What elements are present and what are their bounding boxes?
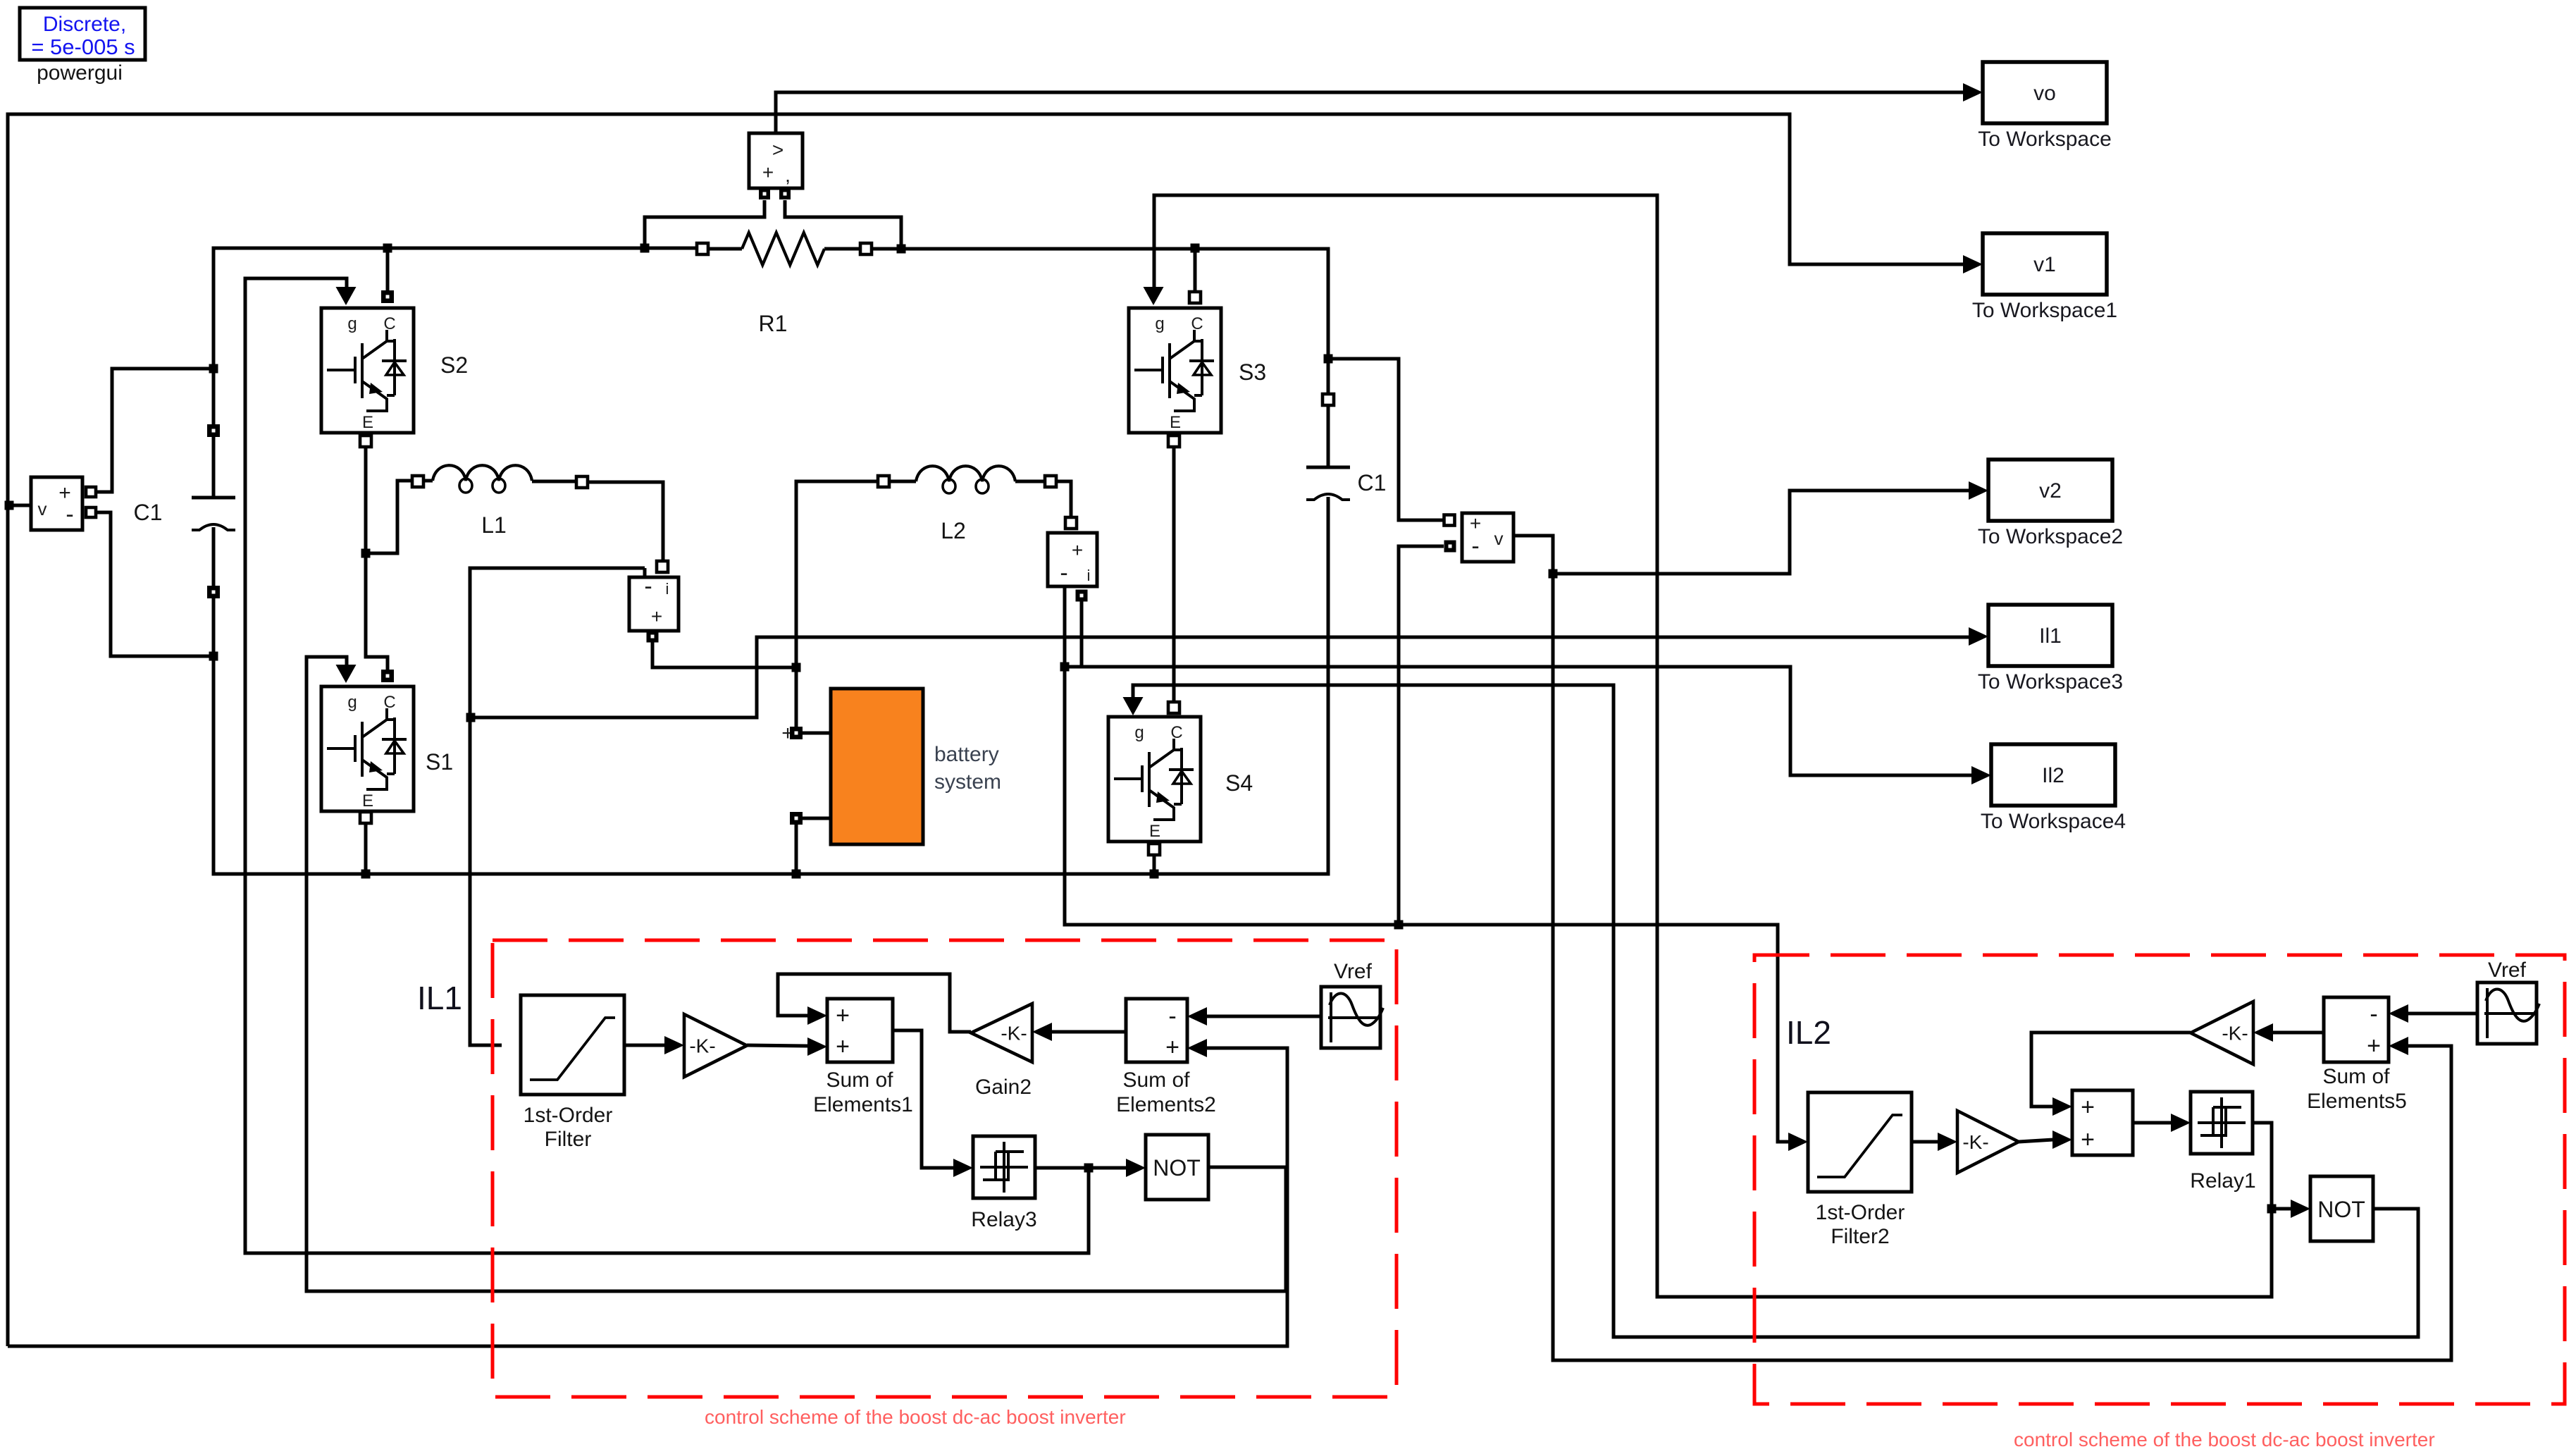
- port meas1 top port: [657, 561, 668, 572]
- svg-text:To Workspace3: To Workspace3: [1978, 670, 2123, 694]
- wire Gain3 out loop to sum IL2 top: [2031, 1033, 2191, 1107]
- logic block NOT (IL1): [1146, 1135, 1208, 1200]
- arrow into Relay3: [953, 1159, 973, 1177]
- gain block Gain2: [971, 1004, 1032, 1062]
- arrow into Sum5 minus: [2389, 1004, 2408, 1023]
- relay block Relay3: [973, 1136, 1035, 1198]
- port L1 right port: [576, 476, 588, 488]
- wire S2 emitter to S1 collector: [366, 447, 388, 670]
- wire > block right port to R1 right: [785, 200, 901, 249]
- wire meas1 left top stub: [643, 568, 647, 577]
- svg-text:+: +: [2081, 1094, 2095, 1121]
- To Workspace block To Workspace1: [1983, 233, 2107, 295]
- wire v-meas plus tap: [96, 369, 213, 492]
- arrow into v2: [1969, 481, 1988, 500]
- wire Gain2 out loop to Sum1 top: [778, 974, 971, 1032]
- wire Sum1 out to Relay3: [893, 1030, 954, 1168]
- junction L1 tap: [361, 549, 371, 558]
- wire R1 right lead: [824, 247, 860, 251]
- svg-text:control scheme of the boost dc: control scheme of the boost dc-ac boost …: [2014, 1429, 2435, 1450]
- svg-text:IL2: IL2: [1786, 1014, 1831, 1051]
- source block Vref2 (Vref sine): [2477, 982, 2537, 1044]
- svg-text:To Workspace1: To Workspace1: [1972, 299, 2117, 322]
- arrow into sum IL2 top: [2052, 1097, 2072, 1116]
- svg-text:Vref: Vref: [1334, 960, 1373, 983]
- svg-text:v: v: [38, 498, 47, 519]
- svg-text:Elements5: Elements5: [2307, 1090, 2407, 1113]
- wire L2 right to current meas2: [1056, 481, 1071, 517]
- wire meas2 minus / signal to Filter2: [1065, 586, 1789, 1142]
- arrow into Sum2 plus: [1187, 1039, 1207, 1057]
- svg-text:+: +: [762, 161, 774, 183]
- svg-text:+: +: [836, 1002, 850, 1029]
- svg-text:+: +: [1072, 539, 1083, 561]
- junction S4E on bus: [1150, 870, 1159, 879]
- svg-text:-: -: [1060, 560, 1067, 586]
- svg-text:To Workspace2: To Workspace2: [1978, 525, 2123, 548]
- inductor L1 coil: [433, 465, 532, 481]
- junction v minus tee: [209, 652, 218, 661]
- To Workspace block To Workspace: [1983, 62, 2107, 123]
- port S4 E port: [1148, 844, 1160, 855]
- svg-text:L1: L1: [481, 512, 507, 538]
- port S4 C port: [1168, 702, 1179, 713]
- junction S2C on rail: [383, 244, 392, 253]
- transistor S2 (IGBT/Diode block): [321, 308, 414, 433]
- wire > block left port to rail: [645, 200, 764, 248]
- svg-text:system: system: [934, 770, 1001, 794]
- svg-text:powergui: powergui: [37, 61, 123, 85]
- control scheme box IL2 (red dashed): [1754, 955, 2565, 1404]
- arrow into Il1: [1969, 627, 1988, 646]
- svg-text:g: g: [347, 693, 357, 712]
- svg-text:S4: S4: [1225, 770, 1253, 796]
- svg-text:Elements1: Elements1: [813, 1093, 913, 1116]
- svg-text:+: +: [2367, 1033, 2381, 1059]
- wire L2 right lead: [1015, 480, 1045, 483]
- wire NOT1(IL2) output to S4 gate: [1133, 685, 2418, 1337]
- svg-text:R1: R1: [759, 311, 788, 336]
- To Workspace block To Workspace4: [1991, 744, 2115, 806]
- port meas2 top port: [1065, 517, 1077, 529]
- transistor S4 (IGBT/Diode block): [1108, 717, 1201, 842]
- svg-text:Il2: Il2: [2042, 764, 2064, 787]
- wire L1 left lead: [423, 479, 433, 483]
- port S1 C port: [381, 670, 394, 682]
- svg-text:g: g: [347, 314, 357, 333]
- svg-text:-: -: [1168, 1003, 1176, 1030]
- wire L2 left lead: [889, 480, 916, 483]
- gain block Gain IL2: [1957, 1111, 2019, 1173]
- junction S3C on rail: [1191, 244, 1200, 253]
- junction v2 minus tee: [1394, 920, 1404, 930]
- svg-text:vo: vo: [2033, 82, 2056, 105]
- source block Vref1 (Vref sine): [1321, 987, 1380, 1048]
- port meas2 i port: [1076, 590, 1088, 602]
- wire v2 plus tap: [1328, 359, 1444, 520]
- wire S3 collector drop: [1194, 252, 1197, 292]
- port v-meas plus port: [86, 487, 96, 497]
- svg-text:-: -: [66, 501, 73, 528]
- wire L2 left down to battery plus node: [796, 481, 878, 667]
- port v-meas minus port: [86, 507, 96, 517]
- svg-text:Filter2: Filter2: [1831, 1225, 1889, 1248]
- svg-text:C1: C1: [134, 500, 163, 525]
- svg-text:+: +: [2081, 1126, 2095, 1153]
- wire bottom bus: C1 left bottom to C1 right bottom: [213, 497, 1328, 874]
- wire sum IL2 out to Relay1: [2133, 1121, 2172, 1125]
- wire v-meas output stub: [13, 504, 31, 507]
- wire Relay1 output to S3 gate: [1154, 195, 2272, 1297]
- junction battery plus node: [792, 663, 801, 672]
- svg-text:C: C: [1170, 723, 1182, 742]
- port battery minus port: [790, 812, 803, 825]
- junction Relay1 out tee: [2267, 1205, 2277, 1214]
- svg-text:g: g: [1155, 314, 1164, 333]
- port meas1 bottom port: [647, 631, 659, 643]
- svg-text:Relay3: Relay3: [971, 1208, 1036, 1231]
- svg-text:Vref: Vref: [2488, 959, 2527, 982]
- wire L1 right lead: [532, 480, 576, 483]
- port R1 right port: [860, 243, 872, 254]
- svg-text:Sum of: Sum of: [826, 1068, 893, 1092]
- svg-text:control scheme of the boost dc: control scheme of the boost dc-ac boost …: [705, 1406, 1126, 1428]
- svg-text:-K-: -K-: [1962, 1131, 1988, 1153]
- gain block Gain3: [2191, 1002, 2253, 1064]
- wire L1 right to current meas1: [588, 482, 663, 561]
- sum block sum IL2: [2072, 1090, 2133, 1155]
- svg-text:E: E: [362, 791, 373, 811]
- current measurement block 2 (IL2): [1048, 533, 1097, 586]
- wire battery minus to bus: [795, 825, 798, 874]
- arrow into Gain2: [1032, 1023, 1052, 1041]
- arrow into Gain IL1: [664, 1036, 684, 1054]
- wire Il2 signal to To Workspace4: [1065, 667, 1972, 775]
- port S3 C port: [1189, 292, 1201, 303]
- arrow into Sum5 plus: [2389, 1037, 2408, 1055]
- svg-text:-: -: [644, 573, 652, 600]
- svg-text:E: E: [1149, 822, 1160, 841]
- wire branch to NOT (IL2): [2272, 1207, 2291, 1211]
- svg-text:Gain2: Gain2: [975, 1076, 1032, 1099]
- svg-text:L2: L2: [941, 518, 966, 543]
- sum block Sum of Elements5: [2324, 997, 2389, 1062]
- battery system block: [831, 689, 923, 844]
- wire battery plus stub: [803, 732, 831, 735]
- wire vo net: load voltage to To Workspace: [776, 92, 1964, 133]
- port R1 left port: [697, 243, 708, 254]
- svg-text:-K-: -K-: [689, 1035, 715, 1057]
- wire NOT1 output to S1 gate: [306, 657, 1286, 1291]
- port meas-top left port: [759, 188, 770, 199]
- wire v2 minus tap: [1399, 546, 1444, 925]
- port C1 left bottom port: [207, 586, 220, 598]
- svg-text:E: E: [1170, 413, 1181, 432]
- arrow into vo: [1963, 83, 1983, 101]
- port v2 plus port: [1444, 515, 1455, 526]
- svg-text:v2: v2: [2039, 479, 2062, 503]
- wire Vref1 to Sum of Elements2 minus: [1206, 1015, 1321, 1018]
- arrow into Il2: [1971, 766, 1991, 784]
- svg-text:+: +: [836, 1033, 850, 1060]
- inductor L2 coil: [916, 466, 1015, 481]
- junction battery minus on bus: [792, 870, 801, 879]
- svg-text:i: i: [666, 580, 669, 598]
- wire rail right: R1 to C1(right) top: [872, 249, 1328, 467]
- port C1 right top port: [1323, 394, 1334, 405]
- svg-text:1st-Order: 1st-Order: [524, 1104, 613, 1127]
- measurement block over R1: [749, 133, 803, 188]
- port v2 minus port: [1444, 541, 1456, 553]
- port C1 left top port: [207, 424, 220, 437]
- svg-text:C: C: [1191, 314, 1203, 333]
- transistor S1 (IGBT/Diode block): [321, 686, 414, 811]
- relay block Relay1: [2191, 1092, 2253, 1154]
- svg-text:+: +: [1165, 1034, 1179, 1061]
- svg-text:NOT: NOT: [2317, 1197, 2365, 1222]
- arrow into Gain3: [2253, 1023, 2273, 1042]
- wire S1 emitter to bus: [364, 823, 368, 874]
- wire Gain out to Sum1 lower: [747, 1045, 808, 1046]
- svg-text:Sum of: Sum of: [1122, 1068, 1190, 1092]
- wire Vref2 to Sum5 minus: [2408, 1012, 2477, 1016]
- wire Filter2 out to Gain: [1912, 1140, 1938, 1144]
- wire rail left: C1 top to R1 left: [213, 248, 697, 497]
- capacitor C1 (left): [192, 498, 235, 530]
- svg-text:Elements2: Elements2: [1116, 1093, 1216, 1116]
- arrow into NOT IL2: [2291, 1200, 2310, 1218]
- svg-text:1st-Order: 1st-Order: [1816, 1201, 1905, 1224]
- svg-text:= 5e-005 s: = 5e-005 s: [31, 35, 135, 59]
- svg-text:Filter: Filter: [545, 1128, 592, 1151]
- wire S4 emitter to bus: [1153, 855, 1156, 874]
- wire v-meas minus tap: [96, 512, 213, 656]
- port L1 left port: [412, 476, 423, 487]
- svg-text:S1: S1: [426, 749, 453, 775]
- capacitor C1 (right): [1306, 467, 1350, 500]
- port S2 C port: [381, 290, 394, 303]
- wire Gain IL2 out to sum lower: [2019, 1140, 2053, 1142]
- port S1 E port: [360, 812, 371, 823]
- wire v1 net: v-meas out to To Workspace1: [8, 114, 1964, 1346]
- To Workspace block To Workspace3: [1988, 605, 2112, 666]
- arrow into NOT IL1: [1126, 1159, 1146, 1177]
- voltage measurement block v (left): [31, 477, 82, 530]
- junction R1 right tee: [897, 245, 906, 254]
- voltage measurement block v2: [1462, 513, 1513, 562]
- filter block 1st-Order Filter: [521, 995, 624, 1095]
- wire Sum2 out to Gain2: [1051, 1030, 1126, 1034]
- sum block Sum of Elements2: [1126, 999, 1187, 1062]
- junction S1E on bus: [361, 870, 371, 879]
- svg-text:,: ,: [785, 164, 791, 186]
- wire meas2 i stub: [1080, 601, 1084, 667]
- control scheme box IL1 (red dashed): [493, 940, 1397, 1397]
- svg-text:S3: S3: [1239, 359, 1266, 385]
- svg-text:v1: v1: [2033, 253, 2056, 276]
- svg-text:g: g: [1134, 723, 1144, 742]
- arrow S4 gate arrow: [1123, 697, 1144, 715]
- svg-text:i: i: [1087, 567, 1091, 584]
- port L2 right port: [1045, 476, 1056, 487]
- port meas-top right port: [779, 188, 791, 199]
- arrow S1 gate arrow: [336, 665, 357, 683]
- wire Relay3 out to S2 gate: [245, 278, 1089, 1253]
- svg-text:C1: C1: [1358, 470, 1387, 495]
- svg-text:-: -: [2370, 1001, 2377, 1028]
- wire S3 emitter to S4 collector: [1172, 447, 1176, 702]
- sum block Sum of Elements1: [827, 999, 893, 1062]
- junction v2 plus tee: [1324, 355, 1333, 364]
- svg-text:-K-: -K-: [1001, 1023, 1027, 1045]
- svg-text:battery: battery: [934, 743, 999, 766]
- svg-text:Relay1: Relay1: [2190, 1169, 2255, 1193]
- svg-text:Il1: Il1: [2039, 624, 2062, 648]
- arrow S2 gate arrow: [336, 287, 357, 305]
- wire meas1 bottom to battery plus: [652, 642, 792, 667]
- wire Filter out to Gain: [624, 1044, 665, 1047]
- svg-text:E: E: [362, 413, 373, 432]
- svg-text:Discrete,: Discrete,: [43, 13, 126, 36]
- resistor R1 zigzag: [742, 233, 824, 265]
- wire branch to NOT IL1: [1089, 1166, 1127, 1170]
- arrow into sum IL2 lower: [2052, 1130, 2072, 1149]
- svg-text:+: +: [651, 605, 662, 627]
- port S3 E port: [1168, 436, 1179, 447]
- arrow into Sum2 minus: [1187, 1007, 1207, 1025]
- arrow into Sum1 top: [807, 1006, 827, 1025]
- current measurement block 1 (IL1): [629, 577, 679, 631]
- filter block 1st-Order Filter2: [1808, 1092, 1912, 1192]
- arrow S3 gate arrow: [1144, 287, 1164, 305]
- wire Il1 signal to To Workspace3: [471, 637, 1969, 717]
- port battery plus port: [790, 727, 803, 739]
- svg-text:To Workspace: To Workspace: [1978, 128, 2112, 151]
- svg-text:v: v: [1494, 528, 1504, 549]
- port L2 left port: [878, 476, 889, 487]
- wire v1 signal to Sum of Elements2 plus: [8, 1048, 1287, 1346]
- transistor S3 (IGBT/Diode block): [1129, 308, 1221, 433]
- svg-text:Sum of: Sum of: [2322, 1065, 2390, 1088]
- arrow into v1: [1963, 255, 1983, 273]
- wire battery plus drop: [795, 667, 798, 727]
- svg-text:To Workspace4: To Workspace4: [1981, 810, 2126, 833]
- port S2 E port: [360, 436, 371, 447]
- svg-text:>: >: [772, 139, 784, 161]
- wire S2 collector drop: [386, 248, 390, 291]
- junction Il1 branch: [466, 713, 476, 722]
- svg-text:-K-: -K-: [2222, 1023, 2248, 1045]
- svg-text:C: C: [383, 693, 395, 712]
- junction Relay3 out tee: [1084, 1164, 1094, 1173]
- junction v plus tee: [209, 364, 218, 374]
- wire Sum5 out to Gain3: [2272, 1031, 2324, 1035]
- wire v2 out to To Workspace2: [1513, 491, 1969, 574]
- svg-text:IL1: IL1: [417, 980, 462, 1016]
- To Workspace block To Workspace2: [1988, 460, 2112, 521]
- svg-text:NOT: NOT: [1153, 1155, 1201, 1181]
- powergui block: [20, 8, 145, 60]
- arrow into Sum1 lower: [807, 1037, 827, 1056]
- wire v2 signal to Sum of Elements5 plus: [1553, 574, 2451, 1360]
- junction v2 out tee: [1549, 569, 1558, 579]
- svg-text:S2: S2: [440, 352, 468, 378]
- wire tap to L1 left: [366, 481, 412, 553]
- svg-text:-: -: [1471, 533, 1479, 560]
- wire meas1 signal down to 1st-Order Filter: [470, 568, 645, 1045]
- svg-text:C: C: [383, 314, 395, 333]
- gain block Gain IL1: [684, 1014, 747, 1077]
- arrow into Gain IL2: [1938, 1133, 1957, 1151]
- wire battery minus stub: [803, 817, 831, 820]
- arrow into Relay1: [2171, 1114, 2191, 1132]
- logic block NOT (IL2): [2310, 1176, 2373, 1241]
- arrow into Filter2: [1788, 1133, 1808, 1151]
- junction Il2 branch: [1060, 663, 1070, 672]
- junction meas tap on rail: [640, 244, 650, 253]
- svg-text:+: +: [1470, 512, 1481, 534]
- wire R1 left lead: [708, 247, 742, 251]
- junction v out tee: [5, 501, 14, 510]
